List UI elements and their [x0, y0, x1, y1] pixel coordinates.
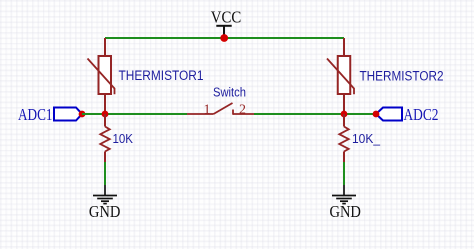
wire junction to ADC2 — [344, 113, 376, 115]
junction node B right — [341, 111, 348, 118]
svg-text:GND: GND — [329, 202, 361, 221]
svg-text:GND: GND — [89, 202, 121, 221]
port ADC2 — [373, 105, 439, 124]
wire R2 to GND — [343, 162, 345, 185]
svg-text:ADC1: ADC1 — [18, 105, 53, 124]
thermistor THERMISTOR1 — [88, 56, 115, 94]
wire left branch top — [104, 38, 106, 56]
junction VCC node — [220, 34, 228, 42]
svg-text:10K_: 10K_ — [352, 131, 381, 146]
svg-text:THERMISTOR1: THERMISTOR1 — [119, 68, 204, 83]
wire thermistor2 bottom lead — [343, 94, 345, 114]
resistor R2 10K_ — [339, 114, 348, 162]
svg-text:ADC2: ADC2 — [404, 105, 439, 124]
wire right branch top — [343, 38, 345, 56]
svg-text:1: 1 — [204, 103, 211, 118]
power symbol VCC bar — [216, 26, 231, 38]
junction node A left — [102, 111, 109, 118]
wire switch to junction — [254, 113, 344, 115]
svg-text:10K: 10K — [113, 131, 134, 146]
port ADC1 — [18, 105, 85, 124]
thermistor THERMISTOR2 — [327, 56, 354, 94]
svg-text:Switch: Switch — [213, 85, 246, 100]
svg-text:THERMISTOR2: THERMISTOR2 — [360, 69, 444, 84]
wire top bus VCC — [105, 37, 344, 39]
ground GND left — [93, 185, 117, 204]
svg-text:2: 2 — [239, 103, 246, 118]
ground GND right — [332, 185, 356, 204]
wire ADC1 to switch — [82, 113, 187, 115]
wire thermistor1 bottom lead — [104, 94, 106, 114]
resistor R1 10K — [100, 114, 109, 162]
wire R1 to GND — [104, 162, 106, 185]
switch S1 — [187, 103, 254, 115]
svg-text:VCC: VCC — [211, 7, 242, 26]
